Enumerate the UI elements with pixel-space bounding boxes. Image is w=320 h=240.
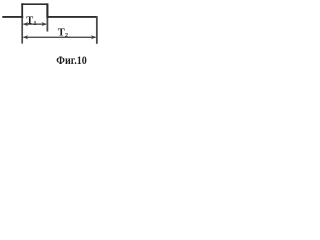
svg-text:T2: T2 — [58, 27, 68, 39]
wire: pulse falling edge — [46, 3, 48, 18]
wire: pulse rising edge — [21, 3, 23, 17]
svg-text:T1: T1 — [26, 15, 36, 27]
wire: rising edge dimension extension line — [21, 18, 23, 44]
dimension arrow T1 (pulse width, double headed) — [23, 22, 46, 26]
wire: pulse top level — [21, 3, 48, 5]
wire: right vertical extension line — [96, 16, 98, 44]
svg-text:Фиг.10: Фиг.10 — [56, 53, 87, 66]
wire: right baseline segment of pulse waveform — [47, 16, 97, 18]
wire: falling edge dimension extension line — [46, 18, 48, 32]
dimension arrow T2 (pulse period, double headed) — [23, 35, 96, 39]
wire: left baseline segment of pulse waveform — [2, 16, 23, 18]
